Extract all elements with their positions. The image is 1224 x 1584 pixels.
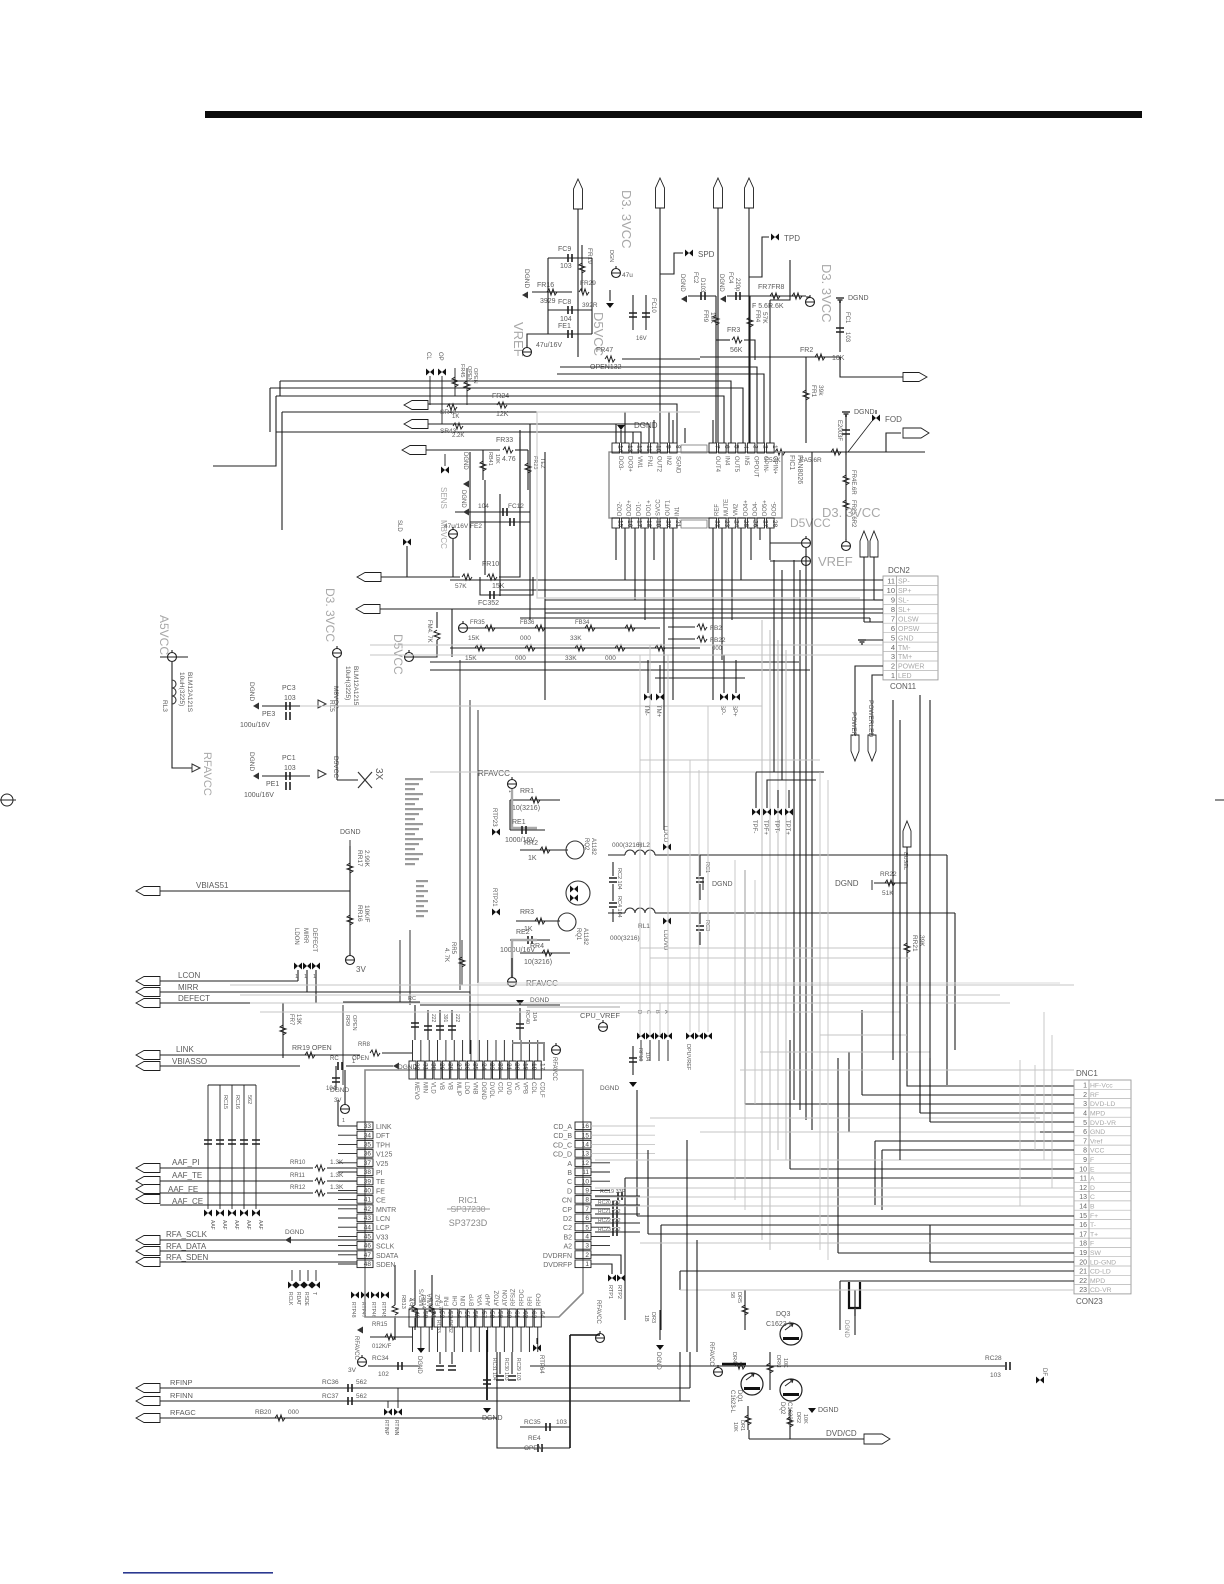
resistor RR10 RR11 RR12 xyxy=(315,1165,325,1171)
svg-text:10K: 10K xyxy=(802,1414,808,1424)
svg-text:DO5-: DO5- xyxy=(772,502,778,516)
svg-text:58: 58 xyxy=(729,1292,735,1298)
wire mirr defect to IC xyxy=(307,992,470,1054)
svg-text:TPT+: TPT+ xyxy=(784,820,790,835)
svg-text:TPF-: TPF- xyxy=(751,820,757,833)
svg-text:103: 103 xyxy=(284,695,296,702)
power RFAVCC right of IC bottom xyxy=(596,1334,605,1343)
svg-text:15: 15 xyxy=(582,1132,590,1139)
svg-text:22: 22 xyxy=(497,1063,504,1071)
ground DGND top-left xyxy=(522,292,528,299)
svg-text:TPT-: TPT- xyxy=(773,820,779,833)
svg-text:RFA_SCLK: RFA_SCLK xyxy=(166,1230,208,1239)
resistor DR2 xyxy=(789,1409,791,1432)
svg-text:47u: 47u xyxy=(622,272,633,279)
svg-text:FR7: FR7 xyxy=(288,1014,294,1026)
svg-text:104: 104 xyxy=(560,316,572,323)
svg-text:9: 9 xyxy=(891,596,895,605)
svg-text:27: 27 xyxy=(455,1063,462,1071)
svg-text:104: 104 xyxy=(478,503,489,510)
svg-text:18: 18 xyxy=(530,1063,537,1071)
testpoint CL OP xyxy=(426,369,434,376)
svg-text:21: 21 xyxy=(1079,1269,1087,1276)
wire RR21 down to CON23 row1 xyxy=(907,1035,1074,1086)
svg-text:CN: CN xyxy=(562,1198,572,1205)
wire thick right loop xyxy=(569,1335,571,1448)
svg-text:FR47: FR47 xyxy=(596,347,613,354)
resistor DRM 10K xyxy=(769,1352,771,1390)
svg-text:RC37: RC37 xyxy=(322,1393,339,1400)
svg-text:FB34: FB34 xyxy=(575,620,590,626)
svg-text:1K: 1K xyxy=(452,414,459,420)
transistor RQ1 xyxy=(558,913,576,931)
svg-text:DGN: DGN xyxy=(608,250,614,262)
ground DGND above FAN8026 xyxy=(617,425,625,430)
svg-text:E: E xyxy=(1090,1166,1095,1173)
svg-text:35: 35 xyxy=(364,1142,372,1149)
wire DCN2 sl- long xyxy=(530,608,883,610)
svg-text:SP-: SP- xyxy=(898,579,910,586)
svg-text:AHP: AHP xyxy=(486,1294,492,1306)
svg-text:FR16: FR16 xyxy=(537,282,554,289)
svg-text:8: 8 xyxy=(674,445,681,449)
svg-text:RR8: RR8 xyxy=(358,1042,371,1048)
net flag top 4 xyxy=(745,178,754,208)
power circle D5VCC left xyxy=(405,653,414,662)
svg-text:IN2: IN2 xyxy=(665,456,671,466)
resistor FR4 xyxy=(749,296,751,360)
svg-text:FR4: FR4 xyxy=(754,310,761,323)
svg-text:25: 25 xyxy=(742,520,749,528)
svg-text:RFAGC: RFAGC xyxy=(170,1408,196,1417)
svg-text:10(3216): 10(3216) xyxy=(524,959,552,966)
svg-text:DO3-: DO3- xyxy=(617,456,623,470)
svg-text:BYP: BYP xyxy=(469,1294,475,1306)
svg-text:D103: D103 xyxy=(699,278,705,293)
svg-text:14: 14 xyxy=(616,445,623,453)
svg-text:4. 7K: 4. 7K xyxy=(443,948,449,962)
svg-text:10: 10 xyxy=(655,445,662,453)
svg-text:CDLF: CDLF xyxy=(538,1082,544,1098)
resistor FR2 xyxy=(700,356,840,358)
svg-text:21: 21 xyxy=(505,1063,512,1071)
resistor FR 4.7K xyxy=(434,630,440,640)
svg-text:100u/16V: 100u/16V xyxy=(240,722,270,729)
svg-text:222: 222 xyxy=(454,1014,460,1023)
capacitor RC33 RC32 xyxy=(436,1366,444,1370)
svg-text:42: 42 xyxy=(364,1206,372,1213)
svg-text:012K/F: 012K/F xyxy=(372,1344,392,1350)
svg-text:RFA_DATA: RFA_DATA xyxy=(166,1242,207,1251)
power D3.3VCC circle FR8 xyxy=(806,298,815,307)
svg-text:TM+: TM+ xyxy=(898,654,912,661)
svg-text:MPD: MPD xyxy=(1090,1278,1105,1285)
svg-text:VBIAS51: VBIAS51 xyxy=(196,881,229,890)
wire DCN2 pin8 xyxy=(874,599,883,601)
svg-text:RC28: RC28 xyxy=(985,1355,1002,1362)
svg-text:DGND: DGND xyxy=(248,682,255,701)
svg-text:36: 36 xyxy=(364,1151,372,1158)
svg-text:39K: 39K xyxy=(918,935,925,947)
svg-text:21: 21 xyxy=(674,520,681,528)
resistor RR5 4.7K xyxy=(461,940,463,985)
svg-text:RTP23: RTP23 xyxy=(491,808,497,827)
testpoint FOD xyxy=(872,415,880,422)
svg-text:18: 18 xyxy=(1079,1241,1087,1248)
svg-text:DGND: DGND xyxy=(462,452,468,470)
svg-text:RC3: RC3 xyxy=(704,920,710,931)
wire center long drop xyxy=(663,700,665,830)
svg-text:6: 6 xyxy=(723,445,730,449)
resistor RB20 000 xyxy=(275,1415,285,1421)
svg-text:CD_B: CD_B xyxy=(553,1133,572,1140)
ground DGND dq cluster xyxy=(656,1345,664,1350)
svg-text:RFO: RFO xyxy=(536,1293,542,1306)
svg-text:LDO: LDO xyxy=(463,1082,469,1095)
ground symbol mid xyxy=(606,303,614,308)
svg-text:RL3: RL3 xyxy=(161,700,168,712)
svg-text:000(3216): 000(3216) xyxy=(612,842,642,849)
svg-text:LDCD: LDCD xyxy=(662,826,668,843)
svg-text:RR3: RR3 xyxy=(520,909,534,916)
svg-text:LDON: LDON xyxy=(293,928,299,945)
svg-text:FC1: FC1 xyxy=(844,312,850,324)
svg-text:RTINP: RTINP xyxy=(383,1420,389,1436)
svg-text:15: 15 xyxy=(616,520,623,528)
svg-text:PE1: PE1 xyxy=(266,781,279,788)
svg-text:OPEN: OPEN xyxy=(351,1015,357,1031)
svg-text:64: 64 xyxy=(538,1311,545,1319)
capacitor RC40 104 right xyxy=(519,1008,521,1040)
ground DGND FC2 xyxy=(681,296,687,303)
svg-text:2: 2 xyxy=(1083,1092,1087,1099)
svg-text:DR2: DR2 xyxy=(795,1412,801,1423)
capacitor RC20-23 222 group xyxy=(595,1204,640,1206)
svg-text:RC35: RC35 xyxy=(524,1419,541,1426)
svg-text:AAF: AAF xyxy=(245,1220,251,1230)
resistor FR 57K / FR10 15K xyxy=(462,574,472,580)
svg-text:CD_D: CD_D xyxy=(553,1152,572,1159)
svg-text:POWER: POWER xyxy=(850,712,857,737)
svg-text:47u/16V FE2: 47u/16V FE2 xyxy=(444,523,482,530)
testpoint TM- TM+ xyxy=(644,694,652,701)
svg-text:MIRR: MIRR xyxy=(302,928,308,944)
wire DCN2 power xyxy=(855,666,883,761)
resistor FR5 xyxy=(715,296,717,443)
svg-text:DGND: DGND xyxy=(655,1352,661,1370)
testpoint mid xyxy=(441,467,449,474)
net flag AAF_FE xyxy=(136,1185,160,1194)
svg-text:562: 562 xyxy=(356,1379,367,1386)
svg-text:FR33: FR33 xyxy=(496,437,513,444)
svg-text:RFAVCC: RFAVCC xyxy=(353,1336,359,1361)
testpoint TPD xyxy=(771,234,779,241)
resistor FR16 xyxy=(532,291,572,293)
svg-text:DO2-: DO2- xyxy=(618,502,624,516)
svg-text:562: 562 xyxy=(356,1393,367,1400)
svg-text:D3. 3VCC: D3. 3VCC xyxy=(323,588,337,642)
svg-text:2.2K: 2.2K xyxy=(452,433,464,439)
svg-text:RE2: RE2 xyxy=(516,929,530,936)
wire FAN bottom pins down xyxy=(615,528,617,560)
svg-text:OUT5: OUT5 xyxy=(733,456,739,473)
svg-text:3: 3 xyxy=(752,445,759,449)
resistor FR33 xyxy=(503,447,513,453)
wire RIC1 bottom pin stubs xyxy=(412,1327,414,1352)
svg-text:OPEN: OPEN xyxy=(472,368,478,384)
svg-text:16: 16 xyxy=(1079,1222,1087,1229)
svg-text:TPH: TPH xyxy=(376,1142,390,1149)
resistor RB13 RB14 col xyxy=(392,1305,398,1315)
testpoint RTP64 xyxy=(533,1345,541,1352)
svg-text:OPIN-: OPIN- xyxy=(762,456,768,473)
net flag VBIAS51 xyxy=(136,887,160,896)
ground DGND rf10 xyxy=(629,1082,637,1087)
svg-text:8: 8 xyxy=(1083,1148,1087,1155)
capacitor FC12 cluster xyxy=(455,511,530,513)
resistor RR16 xyxy=(349,891,351,955)
svg-text:8: 8 xyxy=(585,1197,589,1204)
net flag up DCN2 a xyxy=(860,531,868,557)
svg-text:LED: LED xyxy=(898,673,912,680)
svg-text:RE1: RE1 xyxy=(512,819,526,826)
svg-text:104: 104 xyxy=(531,1012,537,1021)
svg-text:FC352: FC352 xyxy=(478,600,499,607)
gray mesh horizontals xyxy=(230,984,1074,986)
svg-text:ATOZ: ATOZ xyxy=(495,1290,501,1306)
svg-text:TM-: TM- xyxy=(898,645,911,652)
RIC1 bottom pin boxes 49-64 xyxy=(409,1309,416,1327)
capacitor E2003F xyxy=(845,414,847,455)
svg-text:63: 63 xyxy=(530,1311,537,1319)
power RFAVCC bottom xyxy=(508,978,517,987)
svg-text:100u/16V: 100u/16V xyxy=(244,792,274,799)
svg-text:A5VCC: A5VCC xyxy=(157,615,171,655)
svg-text:RR1: RR1 xyxy=(520,788,534,795)
svg-text:HF-Vcc: HF-Vcc xyxy=(1090,1083,1113,1090)
svg-text:ATON: ATON xyxy=(503,1290,509,1306)
svg-text:FE: FE xyxy=(376,1188,385,1195)
net flag VBIASSO xyxy=(136,1062,160,1071)
svg-text:10K: 10K xyxy=(832,355,845,362)
wire long left 9 xyxy=(770,260,790,300)
svg-text:391: 391 xyxy=(442,1014,448,1023)
svg-text:47: 47 xyxy=(364,1252,372,1259)
resistor RR15 xyxy=(370,1336,412,1338)
svg-text:DR5: DR5 xyxy=(736,1292,742,1303)
svg-text:DEFECT: DEFECT xyxy=(178,994,210,1003)
svg-text:DVDRFN: DVDRFN xyxy=(543,1253,572,1260)
gray frame around RIC1 zone xyxy=(478,982,1060,984)
net flag SR42 xyxy=(404,401,428,410)
svg-text:RR22: RR22 xyxy=(880,871,897,878)
svg-text:103: 103 xyxy=(560,263,572,270)
svg-text:DGND: DGND xyxy=(835,879,859,888)
svg-text:DGND: DGND xyxy=(523,269,530,288)
svg-text:DGND: DGND xyxy=(460,490,466,508)
svg-text:12: 12 xyxy=(635,445,642,453)
svg-text:16: 16 xyxy=(626,520,633,528)
svg-text:LINK: LINK xyxy=(176,1045,194,1054)
svg-text:13: 13 xyxy=(582,1151,590,1158)
power circle bottom of FR25 xyxy=(842,542,851,551)
svg-text:MPD: MPD xyxy=(1090,1111,1105,1118)
svg-text:19: 19 xyxy=(1079,1250,1087,1257)
svg-text:15K: 15K xyxy=(492,583,505,590)
svg-text:AAF_PI: AAF_PI xyxy=(172,1158,200,1167)
svg-text:2: 2 xyxy=(891,662,895,671)
net flag right 1 xyxy=(903,373,927,382)
ground DCN2 gnd pin xyxy=(858,640,866,644)
svg-text:C: C xyxy=(1090,1194,1095,1201)
svg-text:3: 3 xyxy=(891,652,895,661)
svg-text:30: 30 xyxy=(430,1063,437,1071)
svg-text:17: 17 xyxy=(538,1063,545,1071)
svg-text:A1182: A1182 xyxy=(582,928,588,946)
RIC1 right pin boxes 16-1 xyxy=(575,1122,591,1130)
svg-text:RC31 104: RC31 104 xyxy=(491,1358,497,1381)
svg-text:222: 222 xyxy=(430,1014,436,1023)
svg-text:10: 10 xyxy=(887,586,895,595)
net flag RFINN xyxy=(136,1397,160,1406)
svg-text:AAF: AAF xyxy=(233,1220,239,1230)
svg-text:C1623-L: C1623-L xyxy=(766,1321,793,1328)
svg-text:VNA: VNA xyxy=(428,1294,434,1306)
svg-text:RR11: RR11 xyxy=(290,1173,306,1179)
svg-text:RC29 103: RC29 103 xyxy=(515,1358,521,1381)
svg-text:RC22 222: RC22 222 xyxy=(598,1218,621,1224)
svg-text:RFAVCC: RFAVCC xyxy=(595,1300,601,1325)
svg-text:33: 33 xyxy=(364,1123,372,1130)
svg-text:RR16: RR16 xyxy=(356,905,363,922)
svg-text:OP: OP xyxy=(437,352,443,361)
svg-text:RR19 OPEN: RR19 OPEN xyxy=(292,1045,332,1052)
svg-text:FM4. 7K: FM4. 7K xyxy=(426,620,432,643)
svg-text:000(3216): 000(3216) xyxy=(610,935,640,942)
svg-text:4: 4 xyxy=(1083,1111,1087,1118)
svg-text:RTP45: RTP45 xyxy=(380,1302,386,1318)
svg-text:DGND: DGND xyxy=(285,1229,304,1236)
capacitor FE1 xyxy=(548,333,592,335)
wire DCN2 pin7 xyxy=(864,621,883,623)
svg-text:FC9: FC9 xyxy=(558,246,571,253)
resistor FR1 xyxy=(805,357,807,443)
svg-text:102: 102 xyxy=(378,1371,389,1378)
svg-text:15K: 15K xyxy=(468,635,480,642)
svg-text:RFAVCC: RFAVCC xyxy=(478,769,510,778)
svg-text:29: 29 xyxy=(438,1063,445,1071)
svg-text:F: F xyxy=(1090,1157,1094,1164)
resistor network FB row2 xyxy=(450,647,700,649)
svg-text:OPOUT: OPOUT xyxy=(752,456,758,478)
svg-text:10: 10 xyxy=(1079,1166,1087,1173)
svg-text:OPSW: OPSW xyxy=(898,626,920,633)
svg-text:RE4: RE4 xyxy=(528,1435,541,1442)
wire DQ3 base resistor thick xyxy=(722,1363,746,1365)
svg-text:IN1: IN1 xyxy=(675,506,681,516)
svg-text:MNTR: MNTR xyxy=(376,1207,396,1214)
svg-text:RR4: RR4 xyxy=(530,943,544,950)
svg-text:FC8: FC8 xyxy=(558,299,571,306)
svg-text:B: B xyxy=(567,1170,572,1177)
svg-text:POWER: POWER xyxy=(898,664,924,671)
svg-text:RC2 104: RC2 104 xyxy=(616,868,622,890)
svg-text:1: 1 xyxy=(585,1261,589,1268)
svg-text:DGND: DGND xyxy=(718,274,724,292)
right margin registration mark xyxy=(1215,799,1224,801)
svg-text:SL+: SL+ xyxy=(898,607,911,614)
ic RIC1 SP3723D body xyxy=(365,1070,583,1317)
net flag up BUSEL xyxy=(903,821,911,847)
svg-text:000: 000 xyxy=(288,1409,299,1416)
svg-text:48: 48 xyxy=(364,1261,372,1268)
wire rfin vertical feeds xyxy=(689,1352,691,1388)
svg-text:RFDC: RFDC xyxy=(520,1289,526,1306)
testpoint RTP1 RTP2 xyxy=(608,1275,616,1282)
svg-text:C1623-L: C1623-L xyxy=(729,1390,735,1414)
svg-text:FR1: FR1 xyxy=(810,385,817,398)
svg-text:RDAT: RDAT xyxy=(295,1292,301,1305)
net flag LINK xyxy=(136,1051,160,1060)
net flag SRL xyxy=(402,446,426,455)
svg-text:56K: 56K xyxy=(730,347,743,354)
capacitor RC1 column xyxy=(696,878,704,882)
testpoint SP- SP+ xyxy=(720,694,728,701)
svg-text:10K: 10K xyxy=(494,454,500,464)
svg-text:BLM12A121S: BLM12A121S xyxy=(186,672,193,713)
resistor RB col2 xyxy=(429,1305,435,1315)
svg-text:RSDE: RSDE xyxy=(303,1292,309,1307)
svg-text:18: 18 xyxy=(645,520,652,528)
svg-text:RC21 222: RC21 222 xyxy=(598,1209,621,1215)
svg-text:RB13: RB13 xyxy=(400,1295,406,1309)
capacitor RC3 xyxy=(696,926,704,930)
svg-text:CE: CE xyxy=(376,1198,386,1205)
svg-text:53: 53 xyxy=(446,1311,453,1319)
ground DGND right col xyxy=(836,298,844,302)
svg-text:VLD: VLD xyxy=(430,1082,436,1094)
resistor FR29 xyxy=(579,289,589,295)
power circle D3.3VCC left xyxy=(333,649,342,658)
net flag up DCN2 b xyxy=(870,531,878,557)
wire staircase left drops xyxy=(213,396,276,466)
svg-text:23: 23 xyxy=(1079,1287,1087,1294)
svg-text:CD_A: CD_A xyxy=(553,1124,572,1131)
svg-text:55: 55 xyxy=(463,1311,470,1319)
svg-text:11: 11 xyxy=(582,1169,589,1176)
svg-text:16: 16 xyxy=(582,1123,590,1130)
svg-text:DQ2: DQ2 xyxy=(779,1402,785,1415)
svg-text:FR9: FR9 xyxy=(702,310,709,323)
svg-text:RFA_SDEN: RFA_SDEN xyxy=(166,1253,208,1262)
net flag right 2 xyxy=(886,433,901,452)
svg-text:23: 23 xyxy=(488,1063,495,1071)
svg-text:RFAVCC: RFAVCC xyxy=(201,752,213,796)
svg-text:10K: 10K xyxy=(732,1422,738,1432)
svg-text:5: 5 xyxy=(732,445,739,449)
resistor RR19 OPEN xyxy=(305,1052,315,1058)
resistor FR25 vertical xyxy=(845,452,847,540)
capacitor FC10 cluster xyxy=(632,295,634,330)
svg-text:FC12: FC12 xyxy=(508,503,524,510)
net flag RFA_SCLK xyxy=(136,1236,160,1245)
svg-text:OUT4: OUT4 xyxy=(714,456,720,473)
svg-text:DCN2: DCN2 xyxy=(888,566,910,575)
svg-text:8: 8 xyxy=(891,605,895,614)
svg-text:FAN8026: FAN8026 xyxy=(796,455,803,484)
svg-text:33K: 33K xyxy=(570,635,582,642)
svg-text:CD-LD: CD-LD xyxy=(1090,1269,1111,1276)
